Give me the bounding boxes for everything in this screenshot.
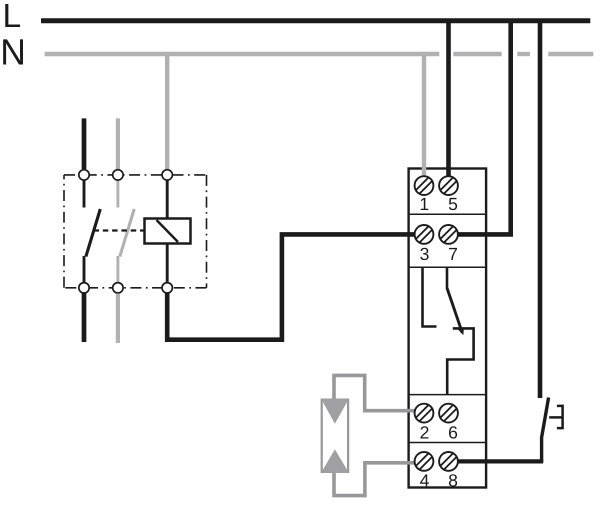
wire N mains segment a — [45, 52, 440, 56]
svg-text:8: 8 — [448, 470, 458, 490]
svg-text:L: L — [3, 0, 22, 35]
svg-text:1: 1 — [419, 194, 429, 214]
internal link to terminal 6 — [447, 328, 473, 394]
contact 2 blade — [120, 209, 134, 257]
terminal 7 — [439, 225, 458, 244]
mechanical linkage dashed — [94, 229, 145, 231]
device divider 4 — [409, 442, 487, 444]
svg-text:4: 4 — [420, 470, 430, 490]
wire N mains segment d — [548, 52, 593, 56]
push-button blade — [542, 398, 549, 463]
wire L drop to push-button — [538, 19, 543, 399]
wire L drop to terminal 5 — [446, 19, 451, 178]
relay K1 dash-dot box — [64, 175, 207, 288]
terminal 8 — [439, 452, 458, 471]
contact 1 blade — [86, 209, 100, 257]
coil diagonal — [157, 220, 179, 242]
blind motor wire loop to terminal 2 — [334, 375, 415, 410]
wire L mains line — [41, 18, 590, 23]
device divider 3 — [409, 394, 487, 396]
blind motor arrow down — [321, 399, 349, 424]
wire N drop to relay coil — [165, 52, 169, 169]
internal blade — [447, 288, 462, 333]
coil upper lead — [166, 181, 169, 219]
relay node top 1 — [79, 170, 89, 180]
wire N mains segment b — [453, 52, 501, 56]
terminal 2 — [415, 404, 434, 423]
svg-text:N: N — [0, 31, 26, 72]
contact 2 lower lead — [116, 256, 119, 282]
contact 1 upper lead — [83, 181, 86, 208]
terminal 1 — [415, 176, 434, 195]
contact 1 lower lead — [83, 256, 86, 282]
internal blade arrowhead — [458, 327, 464, 335]
blind motor wire loop to terminal 4 — [334, 463, 415, 496]
blind motor arrow up — [321, 449, 349, 473]
relay node top 2 — [113, 170, 123, 180]
relay node top 3 — [162, 170, 172, 180]
wire N mains segment c — [517, 52, 530, 56]
blind motor box — [322, 400, 348, 472]
internal pivot lead from terminal 7 — [446, 268, 449, 289]
device divider 2 — [409, 266, 487, 268]
wire terminal 8 to push-button — [458, 459, 544, 463]
relay node bottom 2 — [113, 283, 123, 293]
contact 2 upper lead — [116, 181, 119, 208]
terminal 6 — [439, 404, 458, 423]
svg-text:6: 6 — [448, 423, 458, 443]
coil K1 — [145, 219, 191, 244]
wire L to terminal 7 — [458, 19, 511, 235]
wire stub below contact 1 — [82, 294, 87, 343]
terminal 3 — [415, 225, 434, 244]
push-button actuator — [549, 405, 562, 430]
device divider 1 — [409, 213, 487, 215]
relay node bottom 3 — [162, 283, 172, 293]
wire N drop to terminal 1 — [422, 52, 426, 177]
svg-text:5: 5 — [448, 194, 458, 214]
wire stub above contact 1 — [82, 118, 87, 169]
wire stub below contact 2 — [116, 294, 120, 344]
wire stub above contact 2 — [116, 118, 120, 169]
device box — [409, 169, 487, 488]
terminal 5 — [439, 176, 458, 195]
internal contact from terminal 3 — [423, 268, 437, 327]
relay node bottom 1 — [79, 283, 89, 293]
svg-text:7: 7 — [448, 244, 458, 264]
terminal 4 — [415, 452, 434, 471]
svg-text:2: 2 — [420, 423, 430, 443]
wire coil to terminal 3 — [167, 234, 415, 339]
coil lower lead — [166, 244, 169, 282]
svg-text:3: 3 — [420, 244, 430, 264]
